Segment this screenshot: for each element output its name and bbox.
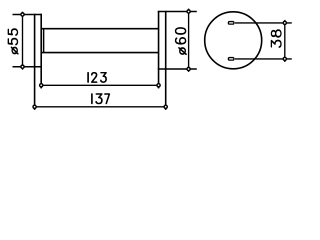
- dimension 123 line: [41, 84, 158, 86]
- dimension ø60 label: [179, 48, 186, 54]
- wall flange ø55 left edge + extension line for 137: [34, 14, 36, 110]
- dimension 137 line: [35, 106, 166, 108]
- flange ø60 front view circle: [205, 12, 262, 69]
- dimension 123 label: [87, 73, 89, 82]
- dimension 38 line: [284, 20, 286, 62]
- flange ø60 top edge + ø60 top extension line: [158, 11, 197, 13]
- dimension 137 terminator right: [164, 105, 167, 108]
- dimension 123 terminator left: [40, 84, 43, 87]
- bar tube top edge: [41, 28, 158, 30]
- dimension ø55 label: [11, 47, 18, 53]
- wall flange ø60 left edge + extension line for 123: [158, 11, 160, 89]
- dimension 123 terminator right: [157, 84, 160, 87]
- dimension ø55 terminator top: [21, 13, 24, 16]
- dimension ø55 terminator bottom: [21, 65, 24, 68]
- bar tube bottom edge: [41, 52, 158, 54]
- flange bottom edge + ø55 bottom extension line: [13, 66, 43, 68]
- dimension ø55 line: [22, 12, 24, 70]
- dimension ø60 line: [188, 9, 190, 72]
- wall flange ø60 right edge + extension line for 137: [165, 11, 167, 110]
- dimension 38 label: [271, 40, 281, 47]
- dimension 137 label: [91, 94, 93, 104]
- flange top edge + ø55 top extension line: [13, 13, 43, 15]
- flange ø60 bottom edge + ø60 bottom extension line: [158, 68, 197, 70]
- dimension ø60 terminator top: [187, 10, 190, 13]
- mounting slot bottom: [228, 58, 234, 61]
- dimension 38 top extension line: [235, 22, 292, 24]
- bar end cap line: [43, 29, 45, 53]
- dimension 137 terminator left: [33, 105, 36, 108]
- dimension ø60 terminator bottom: [187, 67, 190, 70]
- dimension 38 bottom extension line: [235, 58, 292, 60]
- dimension 38 terminator bottom: [283, 57, 286, 60]
- dimension 38 terminator top: [283, 21, 286, 24]
- wall flange ø55 right edge + extension line for 123: [40, 14, 42, 89]
- mounting slot top: [228, 22, 234, 25]
